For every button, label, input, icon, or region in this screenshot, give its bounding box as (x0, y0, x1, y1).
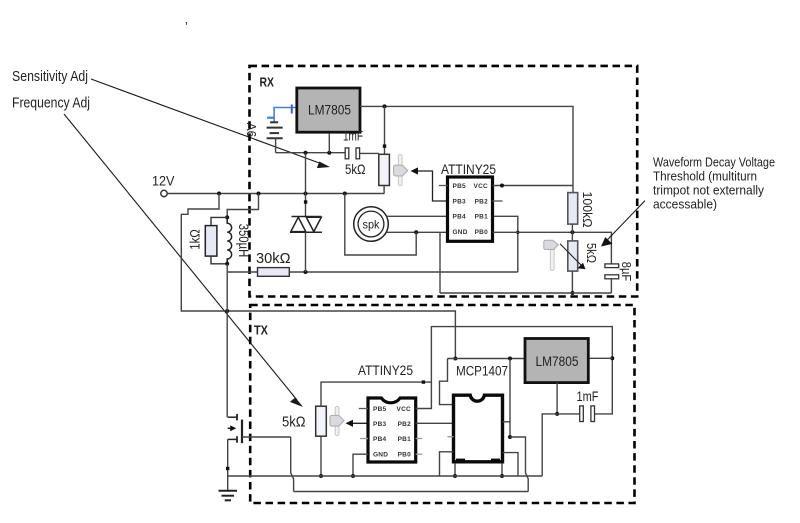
svg-text:1mF: 1mF (343, 129, 363, 144)
node at x329.3 on y152.7 (327, 151, 331, 155)
svg-text:MCP1407: MCP1407 (456, 364, 508, 379)
node MCP tab left on rail A (453, 474, 457, 478)
regulator U2 LM7805 RX (297, 88, 360, 132)
wire gate rail left riser with hop (291, 437, 294, 492)
node square marker on pot top wire (422, 380, 425, 383)
node MCP right chain (508, 435, 512, 439)
wire trimpot bottom to RX bottom rail (571, 271, 573, 293)
svg-text:ATTINY25: ATTINY25 (358, 362, 413, 378)
node square marker above pot (383, 144, 386, 147)
wire TX pot top to VCC vertical (321, 382, 431, 406)
svg-text:350µH: 350µH (236, 224, 252, 258)
wire MCP chain to rail B with hop (510, 437, 528, 492)
svg-text:PB0: PB0 (398, 452, 412, 459)
svg-text:PB4: PB4 (373, 436, 387, 443)
svg-text:1mF: 1mF (577, 389, 599, 404)
node TX rail drop to MCP wire (453, 357, 457, 361)
node junction TX rail / drain vertical (225, 309, 229, 313)
svg-text:30kΩ: 30kΩ (256, 251, 291, 267)
wire staircase from 12V rail down-left into TX rail (181, 194, 455, 359)
battery blue plus bar (267, 117, 274, 119)
wire rail B gate rail (294, 491, 529, 493)
svg-text:PB0: PB0 (475, 229, 489, 236)
node square marker below 12V rail (304, 200, 307, 203)
wire diac bottom vertical (305, 232, 307, 272)
resistor 100kOhm (568, 193, 578, 225)
wire MCP top row to LM7805 TX input (448, 358, 526, 360)
svg-text:PB1: PB1 (398, 436, 412, 443)
TX dashed box (250, 305, 634, 503)
inductor 350uH (227, 217, 231, 263)
trimmer screw icon TX frequency (330, 407, 344, 436)
trimmer screw icon RX sensitivity (394, 155, 408, 186)
pin stub MCP left NC (447, 436, 453, 438)
svg-text:100kΩ: 100kΩ (580, 192, 595, 228)
pin stub PB2 (493, 200, 503, 202)
node on top rail above 5k pot (383, 104, 387, 108)
wire MOSFET source down (227, 439, 229, 490)
node MCP right vertical on top row (508, 357, 512, 361)
wire 100k bottom link (571, 224, 573, 241)
wire blue battery to LM7805 (274, 108, 297, 122)
wire top rail down to 5k pot top (384, 106, 386, 154)
pin stub TX PB1 (416, 438, 423, 440)
callout arrow Frequency Adj to TX 5k pot (64, 114, 303, 407)
callout arrow Sensitivity Adj to RX 5k pot (91, 79, 330, 168)
node 100k bottom on GND row (570, 230, 574, 234)
wire TX PB3 to trimmer with arrow (348, 422, 368, 424)
wire LM7805 RX middle pin down (328, 132, 330, 153)
wire TX GND to rail A (353, 454, 368, 476)
wire MCP tab right to rail A (501, 463, 503, 476)
node MCP tab right on rail A (500, 474, 504, 478)
wire MCP right vertical pins (509, 359, 511, 438)
node square marker on source wire (226, 467, 229, 470)
wiper arrow across trimpot (560, 244, 582, 266)
node top of 1k/350u (225, 215, 229, 219)
wire 30k left link (227, 271, 257, 273)
resistor 1kOhm (205, 226, 217, 257)
node junction on 12V rail at x219 (217, 192, 221, 196)
svg-text:PB4: PB4 (453, 214, 467, 221)
regulator U5 LM7805 TX (525, 339, 588, 383)
wire node row y152.7 to 1mF (276, 152, 346, 154)
wire RX bottom rail (440, 292, 611, 294)
pin stub TX PB5 (359, 408, 368, 410)
resistor 30kOhm (258, 268, 290, 277)
pin tab MCP bottom right (491, 459, 500, 464)
wire TX VCC chain to LM7805 TX output (416, 327, 613, 414)
capacitor 1mF TX (580, 406, 584, 422)
svg-text:TX: TX (254, 323, 268, 338)
svg-text:LM7805: LM7805 (536, 354, 579, 369)
wire LM7805 TX gnd pin down (556, 383, 558, 414)
wire 1mF to 5k pot (360, 152, 379, 154)
svg-text:9V: 9V (244, 122, 259, 137)
wire LM7805 TX right pin (588, 357, 612, 359)
svg-text:5kΩ: 5kΩ (345, 161, 366, 177)
node trimpot bottom on RX bottom rail (570, 291, 574, 295)
wire PB3 to trimmer with arrow (413, 171, 448, 201)
svg-text:PB1: PB1 (475, 214, 489, 221)
wire pot bottom to 12V rail (383, 186, 385, 194)
wire TX pot bottom to rail A (320, 436, 322, 476)
battery B1 9V (267, 122, 283, 138)
svg-text:PB3: PB3 (453, 198, 467, 205)
svg-text:Frequency Adj: Frequency Adj (12, 95, 90, 112)
svg-text:Waveform Decay Voltage: Waveform Decay Voltage (653, 155, 775, 170)
svg-text:accessable): accessable) (653, 197, 717, 212)
potentiometer 5kOhm TX frequency (316, 406, 327, 436)
trimmer screw icon RX threshold (544, 240, 558, 270)
wire 1k bottom link (211, 256, 227, 264)
wire battery bottom down (275, 138, 277, 153)
svg-text:8µF: 8µF (619, 262, 634, 282)
IC U3 ATTINY25 TX with notch (368, 398, 416, 462)
IC U4 MCP1407 with notch (454, 395, 503, 462)
diac D1 (290, 217, 322, 233)
wire mid rail 30k to PB1 drop (289, 271, 518, 273)
svg-text:1kΩ: 1kΩ (187, 229, 203, 250)
wire GND row down to RX bottom rail (439, 232, 441, 293)
svg-text:RX: RX (260, 75, 275, 90)
svg-text:12V: 12V (152, 173, 175, 189)
pin tab MCP bottom left (456, 459, 465, 464)
speaker spk (354, 207, 389, 242)
wire 1k top link (211, 217, 227, 225)
wire MOSFET gate to gate rail riser (242, 436, 291, 438)
svg-text:PB3: PB3 (373, 421, 387, 428)
wire VCC to 100k vertical (493, 185, 574, 187)
wire MCP pin4 to rail A (440, 452, 454, 476)
node junction on 12V rail at x344.8 (343, 192, 347, 196)
svg-text:PB2: PB2 (475, 198, 489, 205)
wire 8uF bottom (610, 279, 612, 293)
wire rail A ground rail (228, 475, 543, 477)
svg-text:’: ’ (185, 19, 188, 34)
callout arrow waveform note to trimpot (606, 201, 645, 242)
svg-text:PB5: PB5 (453, 183, 467, 190)
svg-text:ATTINY25: ATTINY25 (441, 161, 496, 177)
node on VCC wire (500, 184, 504, 188)
wire diac top vertical (305, 194, 307, 217)
potentiometer 5kOhm RX sensitivity (379, 154, 390, 185)
node junction on 12V rail at x258.5 (257, 192, 261, 196)
wire vertical x227 down to MOSFET drain (226, 264, 228, 417)
wire PB1 to mid rail (493, 216, 518, 272)
svg-text:trimpot not externally: trimpot not externally (653, 183, 764, 198)
svg-text:PB5: PB5 (373, 406, 387, 413)
pin stub TX PB0 (416, 453, 423, 455)
svg-text:LM7805: LM7805 (308, 103, 351, 118)
wire L from 12V rail around speaker (345, 194, 416, 256)
node PB1 wire crossing GND wire (516, 231, 519, 234)
capacitor 8uF (605, 264, 619, 268)
IC U1 ATTINY25 RX (448, 177, 493, 241)
svg-text:GND: GND (453, 229, 468, 236)
wire speaker top to PB4 (387, 215, 448, 217)
wire x305.5 down to 12V rail (305, 153, 307, 194)
ground (219, 491, 238, 501)
svg-text:Sensitivity Adj: Sensitivity Adj (12, 68, 88, 85)
capacitor 1mF RX (345, 148, 349, 159)
svg-text:5kΩ: 5kΩ (282, 415, 306, 431)
pin stub PB5 (439, 185, 448, 187)
wire MCP tab left to rail A (454, 463, 456, 476)
node pot bottom on rail A (319, 474, 323, 478)
node junction on 12V rail at x305.5 (304, 192, 308, 196)
12V terminal circle (161, 190, 167, 196)
svg-text:VCC: VCC (397, 406, 412, 413)
node gnd pin / cap wire (555, 412, 559, 416)
node at x305.5 on y152.7 (304, 151, 308, 155)
wire LM7805 RX output top rail (360, 106, 573, 192)
RX dashed box (250, 66, 638, 297)
pin wire MCP right lower to rail A (503, 453, 519, 476)
wire TX PB2 to MCP input (416, 422, 454, 424)
wire GND/PB0 row to 8uF corner (493, 232, 612, 264)
wire jog to MCP pin1 (440, 359, 454, 405)
pin stub TX PB4 (360, 438, 368, 440)
svg-text:Threshold (multiturn: Threshold (multiturn (653, 169, 757, 184)
node LM7805 TX output (610, 356, 614, 360)
wire from 12V rail down to 1k/350u top node (227, 194, 258, 218)
svg-text:PB2: PB2 (398, 421, 412, 428)
wire speaker bottom to GND pin (387, 231, 448, 233)
pin tick blue at LM7805 left edge (291, 105, 293, 114)
trimpot 5kOhm RX threshold (568, 241, 578, 271)
transistor Q1 MOSFET (228, 414, 242, 443)
svg-text:spk: spk (363, 217, 381, 231)
wire 12V rail (167, 193, 384, 195)
node on speaker bottom wire (414, 230, 418, 234)
svg-text:VCC: VCC (474, 183, 489, 190)
node diac bottom on mid rail (304, 270, 308, 274)
svg-text:GND: GND (373, 452, 388, 459)
node bottom of 1k/350u (225, 262, 229, 266)
wire cap left to gnd node to down leg (542, 414, 580, 476)
node TX GND on rail A (351, 474, 355, 478)
pin wire MCP right upper (503, 421, 511, 423)
svg-text:5kΩ: 5kΩ (584, 243, 599, 263)
